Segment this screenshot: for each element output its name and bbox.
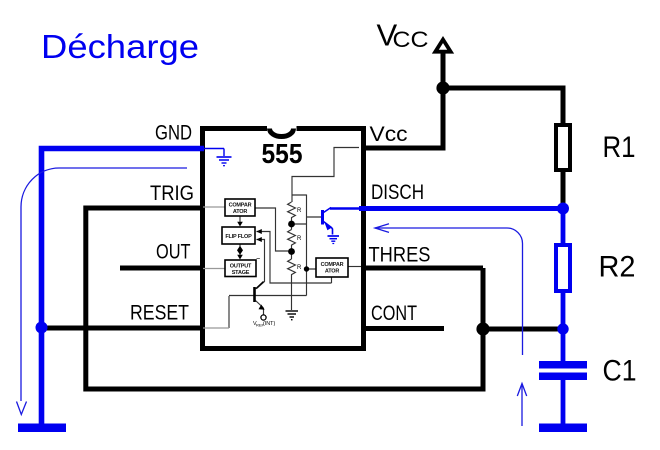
svg-text:RESET: RESET xyxy=(130,301,189,325)
svg-text:R: R xyxy=(297,208,302,214)
svg-text:(INT): (INT) xyxy=(263,321,275,327)
svg-text:COMPAR: COMPAR xyxy=(229,203,252,209)
svg-text:OUT: OUT xyxy=(156,240,191,264)
svg-text:CONT: CONT xyxy=(371,301,417,325)
svg-text:STAGE: STAGE xyxy=(232,270,250,276)
svg-text:TRIG: TRIG xyxy=(150,181,194,205)
svg-text:ATOR: ATOR xyxy=(325,269,340,275)
svg-text:OUTPUT: OUTPUT xyxy=(230,264,252,270)
svg-text:R1: R1 xyxy=(603,131,636,164)
svg-text:555: 555 xyxy=(262,138,303,169)
svg-text:C1: C1 xyxy=(603,355,637,388)
svg-text:R2: R2 xyxy=(599,251,636,284)
svg-text:R: R xyxy=(297,265,302,271)
svg-text:CC: CC xyxy=(393,27,429,52)
svg-text:DISCH: DISCH xyxy=(371,180,424,204)
svg-text:ATOR: ATOR xyxy=(233,209,248,215)
svg-text:FLIP FLOP: FLIP FLOP xyxy=(225,234,252,240)
svg-text:R: R xyxy=(297,236,302,242)
svg-text:GND: GND xyxy=(155,121,192,145)
svg-text:Décharge: Décharge xyxy=(41,28,199,65)
svg-text:COMPAR: COMPAR xyxy=(321,262,344,268)
svg-text:THRES: THRES xyxy=(369,243,431,267)
svg-text:Vcc: Vcc xyxy=(370,122,408,146)
